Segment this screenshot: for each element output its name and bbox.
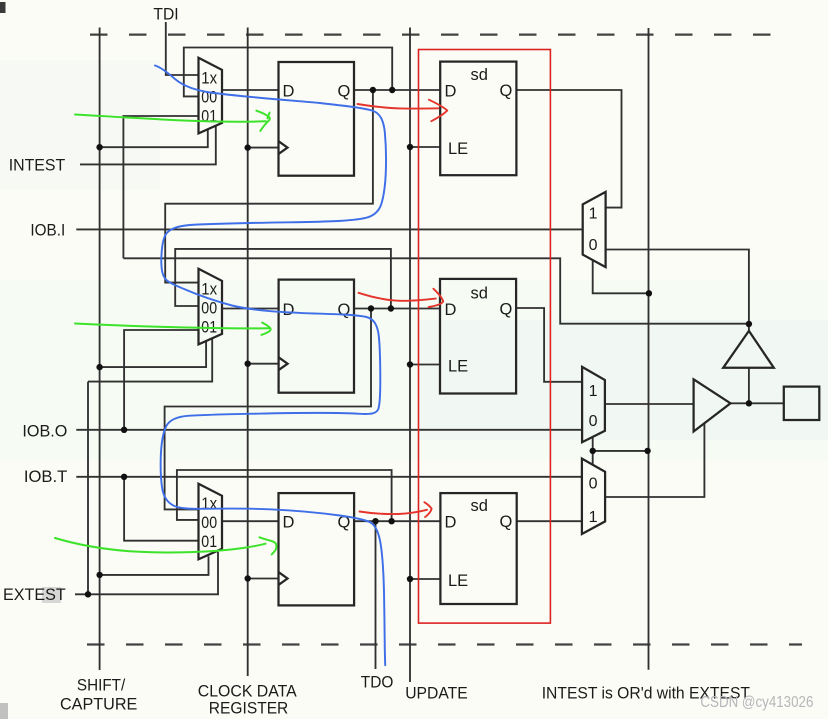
svg-text:1: 1 bbox=[589, 509, 598, 526]
svg-text:00: 00 bbox=[201, 513, 217, 532]
svg-text:D: D bbox=[283, 301, 295, 319]
svg-text:D: D bbox=[445, 301, 457, 319]
svg-text:1x: 1x bbox=[201, 68, 217, 87]
svg-text:INTEST: INTEST bbox=[9, 155, 65, 174]
svg-text:0: 0 bbox=[589, 237, 598, 254]
svg-text:SHIFT/: SHIFT/ bbox=[77, 675, 126, 694]
svg-text:sd: sd bbox=[471, 497, 488, 515]
svg-text:EXTEST: EXTEST bbox=[3, 585, 66, 604]
svg-text:sd: sd bbox=[471, 285, 488, 303]
svg-text:D: D bbox=[283, 82, 295, 100]
svg-text:LE: LE bbox=[448, 572, 468, 590]
svg-text:UPDATE: UPDATE bbox=[405, 683, 468, 702]
svg-text:01: 01 bbox=[201, 317, 217, 336]
svg-text:0: 0 bbox=[589, 475, 598, 492]
svg-text:0: 0 bbox=[589, 413, 598, 430]
svg-text:D: D bbox=[445, 82, 457, 100]
svg-text:Q: Q bbox=[500, 301, 513, 319]
svg-text:Q: Q bbox=[338, 301, 351, 319]
svg-text:TDO: TDO bbox=[361, 672, 394, 691]
svg-text:1x: 1x bbox=[201, 279, 217, 298]
svg-text:IOB.I: IOB.I bbox=[30, 221, 65, 240]
svg-text:CAPTURE: CAPTURE bbox=[60, 694, 137, 713]
svg-text:Q: Q bbox=[338, 82, 351, 100]
svg-text:IOB.O: IOB.O bbox=[22, 421, 67, 440]
svg-text:REGISTER: REGISTER bbox=[209, 698, 288, 717]
svg-text:D: D bbox=[445, 514, 457, 532]
svg-text:LE: LE bbox=[448, 357, 468, 375]
svg-text:sd: sd bbox=[471, 66, 488, 84]
svg-text:IOB.T: IOB.T bbox=[24, 467, 67, 486]
svg-text:CSDN @cy413026: CSDN @cy413026 bbox=[700, 694, 813, 711]
svg-text:Q: Q bbox=[500, 82, 513, 100]
svg-text:01: 01 bbox=[201, 532, 217, 551]
svg-text:1x: 1x bbox=[201, 494, 217, 513]
svg-text:1: 1 bbox=[589, 206, 598, 223]
svg-text:00: 00 bbox=[201, 87, 217, 106]
svg-text:D: D bbox=[283, 514, 295, 532]
svg-text:LE: LE bbox=[448, 140, 468, 158]
svg-text:TDI: TDI bbox=[153, 4, 178, 23]
svg-text:Q: Q bbox=[500, 513, 513, 531]
svg-text:1: 1 bbox=[589, 383, 598, 400]
